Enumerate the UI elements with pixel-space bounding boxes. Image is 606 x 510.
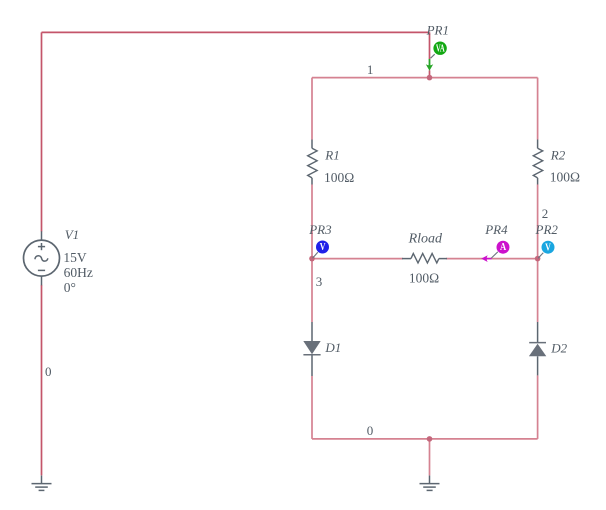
svg-text:PR3: PR3 <box>308 222 332 237</box>
svg-text:15V: 15V <box>63 250 87 265</box>
svg-text:V: V <box>545 242 551 253</box>
svg-text:PR2: PR2 <box>535 222 559 237</box>
svg-text:100Ω: 100Ω <box>324 170 354 185</box>
svg-text:60Hz: 60Hz <box>64 265 93 280</box>
svg-text:R1: R1 <box>324 148 339 163</box>
svg-text:0: 0 <box>367 423 374 438</box>
svg-text:0°: 0° <box>64 280 76 295</box>
svg-text:R2: R2 <box>550 148 566 163</box>
svg-text:PR4: PR4 <box>484 222 508 237</box>
svg-text:0: 0 <box>45 364 52 379</box>
svg-text:3: 3 <box>316 274 323 289</box>
svg-text:V: V <box>320 242 326 253</box>
svg-text:100Ω: 100Ω <box>409 271 439 286</box>
svg-text:PR1: PR1 <box>426 23 449 38</box>
svg-text:V1: V1 <box>65 227 79 242</box>
svg-text:A: A <box>500 242 507 253</box>
svg-text:VA: VA <box>436 44 445 55</box>
svg-text:Rload: Rload <box>408 232 443 247</box>
svg-text:D2: D2 <box>550 340 567 355</box>
svg-text:2: 2 <box>542 206 549 221</box>
svg-text:D1: D1 <box>324 340 341 355</box>
svg-text:1: 1 <box>367 62 374 77</box>
svg-text:100Ω: 100Ω <box>550 170 580 185</box>
